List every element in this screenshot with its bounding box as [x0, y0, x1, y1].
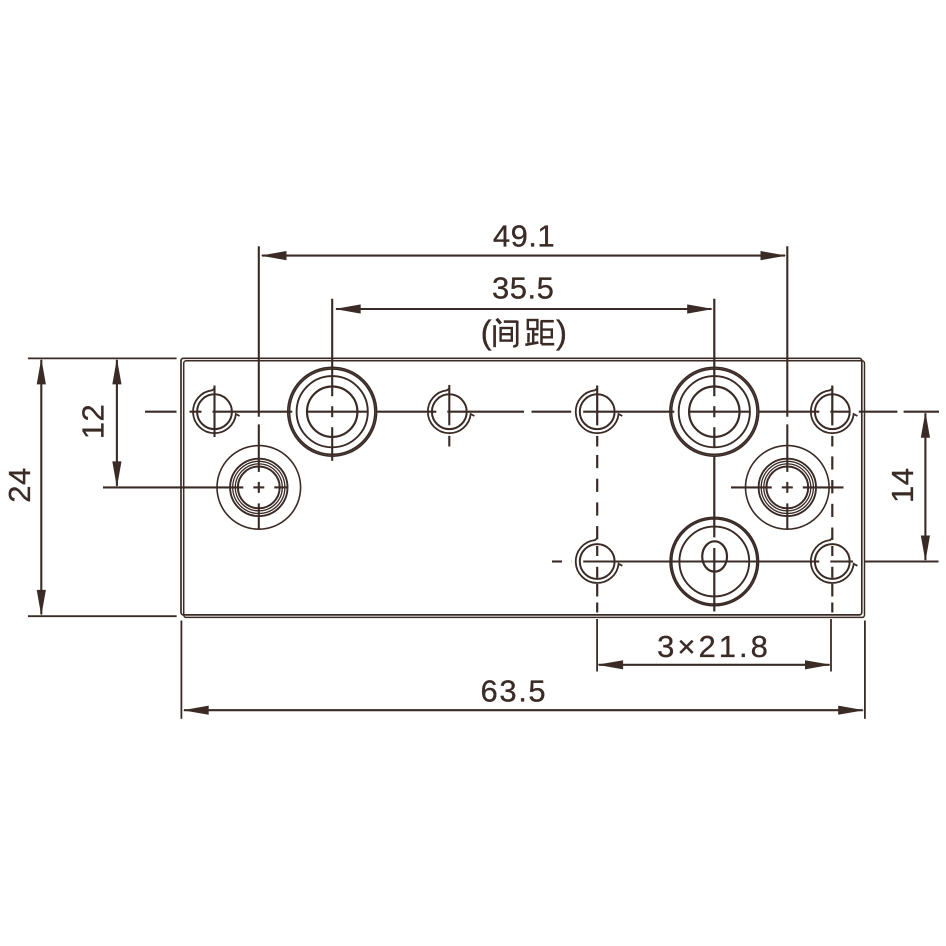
hole P1: large counterbored port: [288, 367, 377, 456]
extension line 3x21.8 left: [596, 619, 598, 672]
hole A2: small threaded hole: [428, 388, 475, 433]
dimension line 14: [924, 413, 926, 560]
svg-text:49.1: 49.1: [493, 219, 555, 254]
extension line 63.5 left: [180, 621, 182, 719]
arrowhead 63.5 left: [183, 706, 209, 715]
centerline: bottom hole row: [552, 560, 939, 562]
centerline: hole A2 vertical: [448, 385, 450, 447]
svg-text:3×21.8: 3×21.8: [657, 629, 771, 664]
extension line 63.5 right: [864, 621, 866, 719]
svg-text:24: 24: [2, 467, 37, 502]
arrowhead 24 top: [37, 358, 46, 384]
arrowhead 3x21.8 left: [597, 660, 623, 669]
hole B2: small threaded hole: [811, 538, 858, 583]
hole M2: mounting hole with spotface rings: [746, 446, 830, 530]
hole A1: small threaded hole: [193, 388, 240, 433]
centerline: hole A1 vertical: [213, 386, 215, 438]
svg-text:12: 12: [75, 404, 110, 439]
arrowhead 12 top: [112, 358, 121, 384]
plate outline (offset shadow edge): [184, 361, 865, 618]
arrowhead 12 bottom: [112, 461, 121, 487]
dimension line 12: [116, 360, 118, 486]
centerline: center port column / 35.5 extension: [713, 299, 715, 612]
centerline: left bolt column: [596, 386, 598, 613]
extension line 3x21.8 right: [830, 619, 832, 672]
centerline: hole M2 vertical / 49.1 extension: [786, 246, 788, 528]
arrowhead 14 top: [921, 412, 930, 438]
hole A3: small threaded hole: [576, 388, 623, 433]
extension line bottom edge: [28, 615, 177, 617]
centerline: middle hole row: [103, 486, 844, 488]
dimension line 49.1: [262, 255, 785, 257]
arrowhead 3x21.8 right: [805, 660, 831, 669]
svg-text:35.5: 35.5: [492, 271, 554, 306]
CJK glyph JU (distance): [525, 320, 554, 345]
CJK glyph JIAN (interval): [495, 319, 518, 347]
hole A4: small threaded hole: [811, 388, 858, 433]
dimension line 63.5: [184, 709, 863, 711]
hole B1: small threaded hole: [576, 538, 623, 583]
svg-text:63.5: 63.5: [481, 674, 548, 709]
dimension line 3x21.8: [599, 664, 830, 666]
arrowhead 49.1 right: [761, 251, 787, 260]
centerline: hole M1 vertical / 49.1 extension: [258, 246, 260, 528]
arrowhead 35.5 right: [687, 304, 713, 313]
arrowhead 14 bottom: [921, 536, 930, 562]
hole M1: mounting hole with spotface rings: [217, 446, 301, 530]
centerline: right bolt column: [831, 386, 833, 613]
centerline: hole P1 vertical / 35.5 extension: [331, 299, 333, 461]
arrowhead 24 bottom: [37, 590, 46, 616]
hole T1: port with offset orifice: [670, 517, 758, 605]
dimension line 35.5: [336, 308, 712, 310]
centerline: top hole row: [145, 411, 939, 413]
dimension line 24: [40, 360, 42, 615]
svg-text:14: 14: [885, 468, 920, 503]
arrowhead 35.5 left: [335, 304, 361, 313]
hole P2: large counterbored port: [670, 367, 759, 456]
svg-text:): ): [556, 314, 567, 351]
extension line top edge: [28, 357, 177, 359]
arrowhead 49.1 left: [261, 251, 287, 260]
arrowhead 63.5 right: [838, 706, 864, 715]
svg-text:(: (: [481, 314, 492, 351]
plate outline (outer edge): [181, 358, 862, 615]
